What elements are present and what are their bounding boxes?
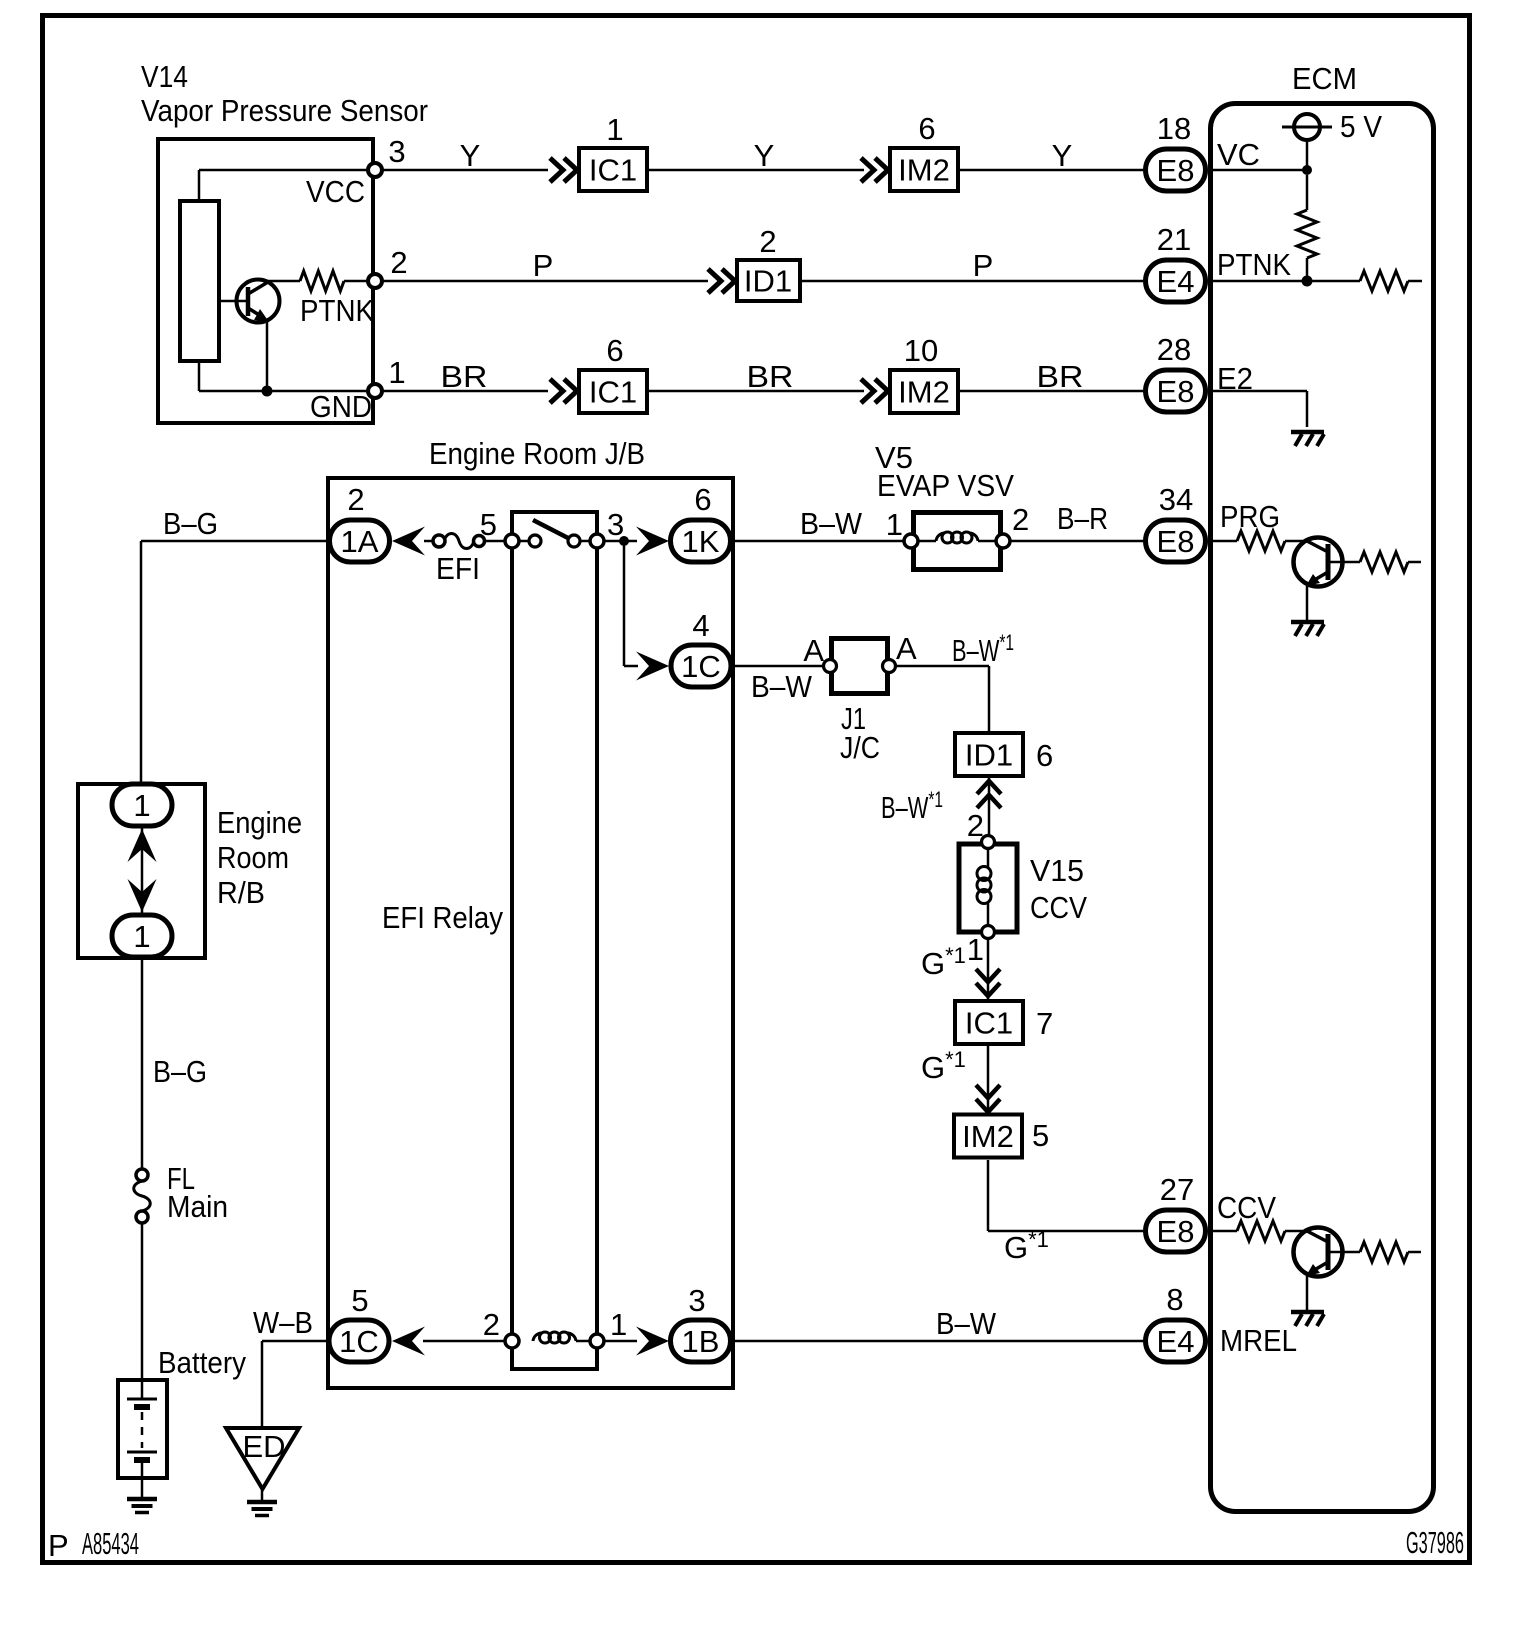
svg-text:B–W: B–W [936, 1306, 997, 1341]
svg-text:J/C: J/C [840, 730, 880, 765]
svg-text:VC: VC [1217, 137, 1260, 172]
svg-text:Main: Main [167, 1189, 228, 1224]
svg-text:6: 6 [1036, 738, 1053, 773]
svg-text:BR: BR [1037, 359, 1084, 394]
svg-text:ID1: ID1 [965, 738, 1013, 773]
svg-text:E8: E8 [1157, 524, 1195, 559]
svg-text:2: 2 [759, 224, 776, 259]
svg-text:1: 1 [388, 355, 405, 390]
svg-text:27: 27 [1160, 1172, 1194, 1207]
svg-text:B–R: B–R [1057, 501, 1108, 536]
svg-text:B–G: B–G [163, 506, 218, 541]
svg-text:ID1: ID1 [744, 264, 792, 299]
svg-text:1: 1 [133, 788, 150, 823]
svg-text:E8: E8 [1157, 153, 1195, 188]
svg-text:10: 10 [904, 333, 938, 368]
svg-text:1: 1 [606, 112, 623, 147]
svg-text:6: 6 [918, 111, 935, 146]
svg-text:6: 6 [606, 333, 623, 368]
svg-text:G37986: G37986 [1406, 1525, 1464, 1560]
svg-text:IC1: IC1 [589, 375, 637, 410]
svg-text:Engine Room J/B: Engine Room J/B [429, 436, 645, 471]
svg-text:A: A [803, 633, 824, 668]
svg-text:BR: BR [441, 359, 488, 394]
svg-text:V14: V14 [141, 59, 188, 94]
svg-text:MREL: MREL [1220, 1323, 1297, 1358]
svg-text:PTNK: PTNK [300, 293, 374, 328]
svg-text:6: 6 [694, 482, 711, 517]
svg-text:V15: V15 [1030, 853, 1084, 888]
svg-text:Y: Y [460, 138, 481, 173]
svg-text:Battery: Battery [158, 1345, 246, 1380]
svg-text:5: 5 [480, 507, 497, 542]
svg-text:8: 8 [1166, 1282, 1183, 1317]
svg-text:Vapor Pressure Sensor: Vapor Pressure Sensor [141, 93, 428, 128]
svg-text:E8: E8 [1157, 374, 1195, 409]
svg-text:1: 1 [133, 919, 150, 954]
svg-text:IM2: IM2 [898, 375, 950, 410]
svg-text:B–W: B–W [751, 669, 813, 704]
svg-text:Y: Y [754, 138, 775, 173]
svg-text:2: 2 [1012, 502, 1029, 537]
svg-text:3: 3 [388, 134, 405, 169]
svg-text:ECM: ECM [1292, 61, 1357, 96]
svg-text:5: 5 [351, 1283, 368, 1318]
svg-text:R/B: R/B [217, 875, 265, 910]
svg-text:IM2: IM2 [898, 153, 950, 188]
svg-text:5 V: 5 V [1340, 109, 1382, 144]
svg-text:B–W*1: B–W*1 [952, 630, 1014, 668]
svg-text:34: 34 [1159, 482, 1193, 517]
svg-text:IC1: IC1 [965, 1006, 1013, 1041]
svg-text:CCV: CCV [1217, 1190, 1276, 1225]
svg-text:E4: E4 [1157, 1324, 1195, 1359]
svg-text:3: 3 [688, 1283, 705, 1318]
svg-text:2: 2 [390, 245, 407, 280]
svg-text:Room: Room [217, 840, 289, 875]
svg-text:G*1: G*1 [921, 1047, 966, 1085]
svg-text:EFI Relay: EFI Relay [382, 900, 503, 935]
svg-text:1A: 1A [341, 524, 379, 559]
svg-text:3: 3 [607, 507, 624, 542]
svg-text:Y: Y [1052, 138, 1073, 173]
svg-text:PTNK: PTNK [1217, 247, 1291, 282]
svg-text:2: 2 [347, 482, 364, 517]
svg-text:BR: BR [747, 359, 794, 394]
svg-text:P: P [48, 1528, 69, 1563]
svg-text:E8: E8 [1157, 1214, 1195, 1249]
svg-text:P: P [533, 248, 554, 283]
svg-text:A85434: A85434 [82, 1526, 139, 1561]
svg-text:IC1: IC1 [589, 153, 637, 188]
svg-text:2: 2 [483, 1307, 500, 1342]
svg-text:1: 1 [886, 507, 903, 542]
svg-text:GND: GND [310, 389, 372, 424]
svg-text:VCC: VCC [306, 174, 365, 209]
svg-text:18: 18 [1157, 111, 1191, 146]
svg-text:28: 28 [1157, 332, 1191, 367]
svg-text:7: 7 [1036, 1006, 1053, 1041]
svg-text:PRG: PRG [1220, 499, 1280, 534]
svg-text:G*1: G*1 [1004, 1227, 1049, 1265]
svg-text:E2: E2 [1217, 361, 1253, 396]
svg-text:IM2: IM2 [962, 1119, 1014, 1154]
svg-text:1C: 1C [339, 1324, 379, 1359]
svg-text:1C: 1C [681, 649, 721, 684]
svg-text:1K: 1K [682, 524, 720, 559]
svg-text:Engine: Engine [217, 805, 302, 840]
svg-text:E4: E4 [1157, 264, 1195, 299]
svg-text:CCV: CCV [1030, 890, 1087, 925]
svg-text:EFI: EFI [436, 551, 480, 586]
svg-text:ED: ED [242, 1429, 285, 1464]
svg-text:1: 1 [967, 932, 984, 967]
svg-text:P: P [973, 248, 994, 283]
svg-text:1B: 1B [682, 1324, 720, 1359]
svg-text:21: 21 [1157, 222, 1191, 257]
svg-text:1: 1 [610, 1307, 627, 1342]
svg-text:B–W: B–W [800, 506, 863, 541]
svg-text:B–G: B–G [153, 1054, 207, 1089]
svg-text:B–W*1: B–W*1 [881, 787, 943, 825]
svg-text:A: A [896, 631, 917, 666]
svg-text:5: 5 [1032, 1118, 1049, 1153]
svg-text:4: 4 [692, 608, 709, 643]
svg-text:G*1: G*1 [921, 943, 966, 981]
svg-text:W–B: W–B [253, 1305, 313, 1340]
svg-text:EVAP VSV: EVAP VSV [877, 468, 1014, 503]
